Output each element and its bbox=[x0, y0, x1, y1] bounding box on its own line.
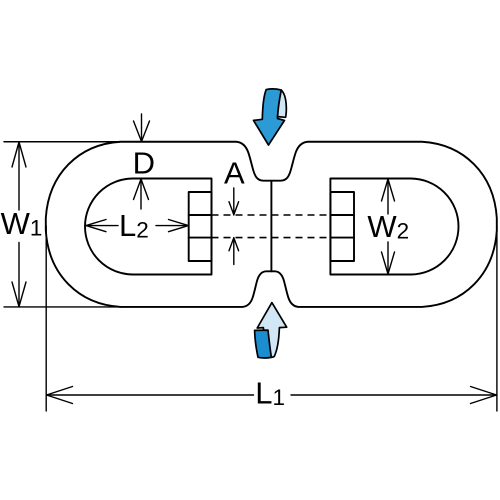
svg-text:A: A bbox=[224, 156, 245, 191]
svg-text:D: D bbox=[133, 145, 155, 180]
